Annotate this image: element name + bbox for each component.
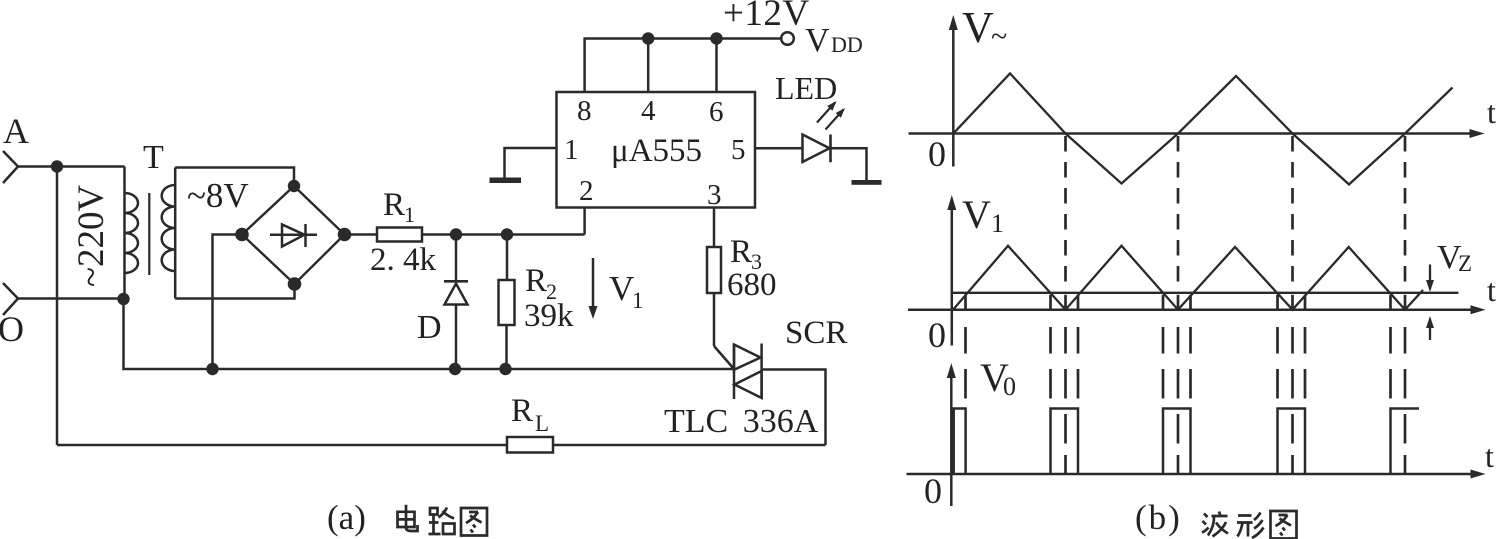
- terminal VDD circle: [781, 32, 794, 45]
- svg-text:R: R: [383, 187, 405, 223]
- waveform V1 y-axis: [947, 195, 956, 346]
- wire O to primary bottom: [18, 297, 124, 300]
- dashed tick line f2: [1049, 295, 1052, 399]
- svg-text:+12V: +12V: [723, 0, 810, 34]
- dashed tick line f4: [1162, 295, 1165, 399]
- junction dot rail at R2: [499, 363, 511, 375]
- dashed line t4: [1404, 136, 1407, 473]
- transformer T primary winding: [125, 167, 139, 300]
- Vz arrow lower: [1426, 316, 1434, 340]
- svg-text:~: ~: [991, 20, 1007, 53]
- svg-text:5: 5: [731, 134, 746, 166]
- dashed tick line f7: [1304, 295, 1307, 399]
- waveform V1 trace: [953, 246, 1423, 310]
- dashed line t2: [1177, 136, 1180, 473]
- svg-text:(a): (a): [327, 498, 366, 537]
- svg-text:t: t: [1485, 438, 1494, 474]
- svg-text:1: 1: [564, 134, 579, 166]
- wire pin 4 to rail: [647, 39, 650, 93]
- svg-text:L: L: [535, 411, 549, 436]
- junction dot node V1 at R2: [501, 228, 513, 240]
- svg-text:1: 1: [991, 209, 1004, 238]
- svg-text:0: 0: [928, 134, 946, 174]
- wire bridge right to R1: [345, 233, 378, 236]
- svg-text:~220V: ~220V: [71, 184, 112, 287]
- svg-text:R: R: [525, 263, 547, 299]
- svg-text:0: 0: [928, 315, 946, 355]
- svg-text:R: R: [730, 234, 752, 270]
- junction dot rail pin4: [642, 32, 654, 44]
- wire pin 5 to LED: [755, 147, 803, 150]
- svg-text:A: A: [3, 111, 29, 151]
- waveform V~ x-axis: [909, 129, 1485, 138]
- svg-text:Z: Z: [1458, 251, 1472, 276]
- terminal O: [0, 283, 24, 349]
- bottom rail right segment: [553, 444, 826, 447]
- transformer T secondary winding: [162, 168, 176, 299]
- waveform V0 x-axis: [907, 470, 1486, 479]
- resistor R3 680: [707, 208, 777, 347]
- junction dot rail pin6: [710, 32, 722, 44]
- svg-text:D: D: [417, 309, 442, 346]
- junction dot bridge right: [338, 228, 352, 242]
- svg-text:SCR: SCR: [785, 315, 847, 351]
- svg-text:~8V: ~8V: [187, 176, 249, 215]
- svg-text:O: O: [0, 309, 24, 349]
- waveform V1 x-axis: [908, 305, 1486, 314]
- dashed tick line f5: [1189, 295, 1192, 399]
- svg-text:LED: LED: [775, 70, 837, 106]
- wire triac to bottom rail: [762, 370, 826, 446]
- svg-text:T: T: [143, 139, 164, 176]
- dashed tick line f1: [964, 295, 967, 399]
- svg-text:t: t: [1487, 272, 1496, 308]
- pulse 5: [1391, 409, 1420, 474]
- svg-text:6: 6: [709, 96, 724, 128]
- wire pin 2 riser: [583, 208, 586, 235]
- junction dot primary bottom node O: [117, 293, 129, 305]
- +12V supply rail: [584, 37, 782, 40]
- wire A rail down to bottom rail: [56, 167, 59, 446]
- ground rail wire: [124, 299, 735, 369]
- svg-text:2: 2: [579, 175, 594, 207]
- waveform V~ y-axis: [949, 15, 958, 167]
- junction dot node V1 at D: [450, 228, 462, 240]
- dashed line t3: [1291, 136, 1294, 473]
- svg-text:V: V: [962, 3, 994, 52]
- ground LED: [852, 180, 882, 185]
- ground pin 1: [490, 148, 557, 183]
- junction dot bridge top: [288, 180, 300, 192]
- dashed tick line f3: [1077, 295, 1080, 399]
- Vz arrow upper: [1426, 265, 1434, 293]
- svg-text:39k: 39k: [524, 298, 574, 334]
- zener diode D: [417, 235, 468, 370]
- svg-text:2. 4k: 2. 4k: [370, 242, 437, 278]
- bridge rectifier: [242, 186, 345, 284]
- pulse 2: [1051, 409, 1079, 474]
- wire LED to ground: [831, 148, 867, 180]
- wire A to primary: [18, 165, 125, 168]
- dashed tick line f8: [1389, 295, 1392, 399]
- transformer T core: [148, 193, 150, 275]
- svg-text:V: V: [609, 269, 634, 308]
- pulse 4: [1278, 409, 1306, 474]
- resistor R1 2.4k: [370, 187, 437, 278]
- wire R1 to pin2 node: [422, 233, 585, 236]
- pulse 3: [1163, 409, 1191, 474]
- waveform V0 y-axis: [947, 363, 956, 506]
- wire pin 6 to rail: [715, 39, 718, 93]
- junction dot node A: [51, 160, 63, 172]
- bottom rail left segment: [57, 444, 507, 447]
- wire secondary bottom to bridge bottom: [175, 284, 294, 299]
- junction dot bridge bottom: [288, 277, 302, 291]
- svg-text:3: 3: [707, 179, 722, 211]
- dashed tick line f6: [1276, 295, 1279, 399]
- junction dot rail at D: [449, 363, 461, 375]
- waveform V~ trace: [953, 73, 1452, 184]
- svg-text:1: 1: [632, 288, 644, 313]
- voltage arrow V1: [589, 258, 644, 319]
- load resistor RL: [507, 393, 553, 453]
- svg-text:t: t: [1487, 94, 1496, 130]
- wire pin 8 to rail: [583, 39, 586, 93]
- svg-text:(b): (b): [1135, 498, 1182, 537]
- LED: [775, 70, 845, 162]
- caption (b) waveform-diagram: [1135, 498, 1297, 539]
- caption (a) circuit-diagram: [327, 498, 487, 537]
- wire bridge left to ground rail: [213, 235, 243, 370]
- terminal A: [3, 111, 29, 183]
- svg-text:DD: DD: [831, 32, 863, 57]
- svg-text:μA555: μA555: [611, 133, 702, 169]
- threshold line Vz: [952, 292, 1459, 294]
- svg-text:680: 680: [727, 267, 777, 303]
- svg-text:4: 4: [641, 95, 656, 127]
- svg-text:0: 0: [924, 471, 942, 511]
- pulse 1: [954, 409, 966, 474]
- junction dot bridge left: [235, 228, 249, 242]
- svg-text:0: 0: [1003, 372, 1016, 401]
- svg-text:R: R: [511, 393, 533, 429]
- wire secondary top to bridge top: [175, 168, 294, 187]
- svg-text:1: 1: [404, 202, 415, 227]
- resistor R2 39k: [499, 235, 575, 370]
- svg-text:V: V: [962, 192, 991, 237]
- junction dot rail-bridge return: [206, 363, 218, 375]
- op-amp U1 uA555: [557, 92, 756, 211]
- dashed line t1: [1064, 136, 1067, 473]
- triac SCR TLC 336A: [664, 315, 847, 440]
- svg-text:V: V: [805, 22, 830, 59]
- svg-text:8: 8: [577, 95, 592, 127]
- svg-text:TLC 336A: TLC 336A: [664, 403, 819, 440]
